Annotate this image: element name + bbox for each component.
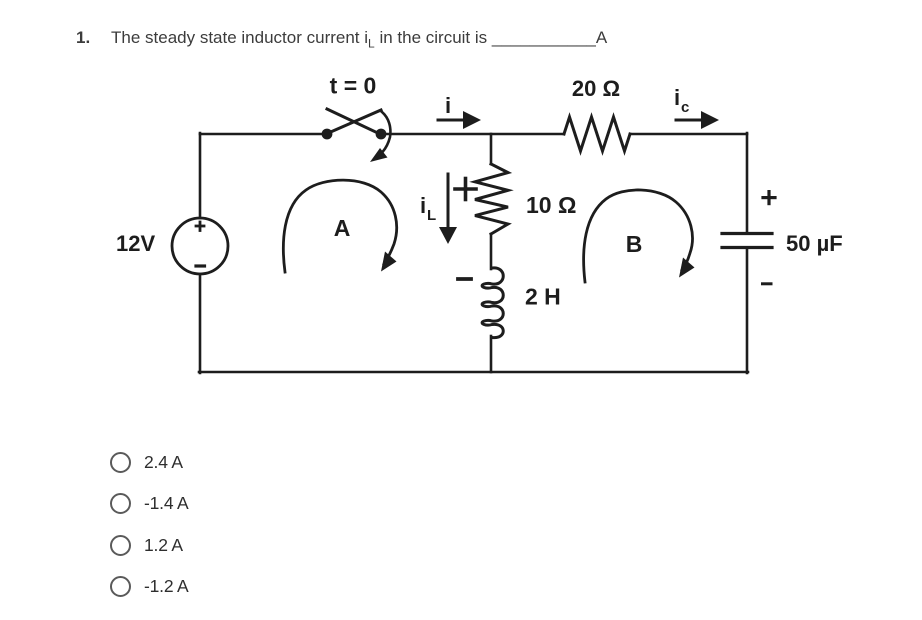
svg-text:i: i [674,85,680,110]
arrow ic [676,119,703,122]
wire right side below capacitor [746,248,749,373]
svg-text:10 Ω: 10 Ω [526,192,576,218]
svg-text:2 H: 2 H [525,284,561,310]
svg-text:20 Ω: 20 Ω [572,76,620,101]
mesh loop A arrow [283,180,396,272]
wire middle branch between resistor and inductor [490,234,493,269]
svg-text:i: i [445,93,451,118]
wire left side below source [199,274,202,373]
mesh loop B arrow [584,190,693,282]
capacitor plus [763,196,775,199]
wire top-right segment (after 20 ohm resistor) [630,133,747,136]
switch S1 (opens at t=0) [326,109,390,152]
arrow i [438,119,465,122]
svg-text:50 µF: 50 µF [786,231,843,256]
svg-text:c: c [681,99,689,116]
inductor L1 2H [482,268,503,338]
wire left side above source [199,133,202,218]
switch arrowhead [370,148,388,162]
capacitor minus [763,282,772,285]
resistor R1 10 ohm (vertical) [475,164,508,234]
svg-text:t = 0: t = 0 [330,73,377,99]
svg-text:B: B [626,231,643,257]
svg-text:i: i [420,193,426,218]
wire top-middle segment (switch right dot to node) [385,133,564,136]
svg-text:12V: 12V [116,231,155,256]
switch contact dot left [322,129,333,140]
svg-text:L: L [427,207,436,224]
switch contact dot right [376,129,387,140]
wire bottom [199,371,748,374]
capacitor C1 plates [722,232,772,235]
wire middle branch top [490,134,493,164]
option 2: -1.4 A [109,492,111,494]
voltage source V1 12V [172,218,228,274]
wire top-left segment [200,133,322,136]
svg-text:A: A [334,215,351,241]
minus sign (top of inductor) [458,277,471,281]
question line [0,27,922,29]
option 4: -1.2 A [109,575,111,577]
option 1: 2.4 A [109,451,111,453]
resistor R2 20 ohm (horizontal) [564,117,630,151]
plus sign (top of 10 ohm) [455,187,476,191]
wire right side above capacitor [746,133,749,233]
wire middle branch bottom [490,336,493,372]
option 3: 1.2 A [109,534,111,536]
